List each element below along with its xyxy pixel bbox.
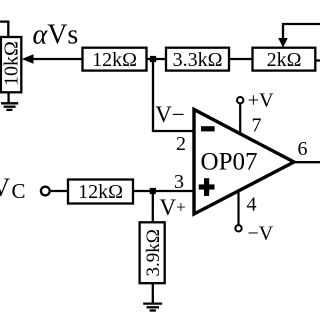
svg-text:3.9kΩ: 3.9kΩ <box>143 229 164 276</box>
svg-text:3: 3 <box>174 171 184 193</box>
svg-text:V: V <box>0 173 10 202</box>
pin 7 wire <box>239 103 241 134</box>
wire V− node down <box>152 59 154 131</box>
wire top terminal of 10k potentiometer <box>0 22 8 37</box>
svg-text:12kΩ: 12kΩ <box>78 181 123 203</box>
svg-text:6: 6 <box>298 138 308 160</box>
svg-text:OP07: OP07 <box>201 148 258 175</box>
resistor 12kΩ (top) <box>83 48 147 71</box>
wire 12kΩ to 3.3kΩ <box>147 58 167 60</box>
resistor 12kΩ (input) <box>68 180 133 204</box>
svg-text:7: 7 <box>252 115 262 137</box>
wire to pin 2 <box>152 130 195 132</box>
svg-text:4: 4 <box>247 194 257 216</box>
+V terminal <box>237 97 243 103</box>
wire terminal to 12kΩ <box>51 190 68 192</box>
svg-text:−V: −V <box>248 223 274 245</box>
wiper arrow into 10kΩ <box>22 54 34 63</box>
wire 3.3kΩ to 2kΩ <box>229 58 253 60</box>
inverting input marker − <box>201 126 215 131</box>
ground below 10kΩ <box>1 103 18 110</box>
svg-text:+V: +V <box>248 89 274 111</box>
wire output pin 6 <box>293 161 320 163</box>
op-amp U1 OP07 <box>194 110 294 215</box>
input terminal VC <box>41 187 50 196</box>
resistor 3.9kΩ (vertical) <box>140 222 165 283</box>
resistor 3.3kΩ <box>166 48 229 71</box>
resistor R 10kΩ (potentiometer body) <box>1 37 21 92</box>
svg-text:12kΩ: 12kΩ <box>92 49 137 71</box>
wire 3.9kΩ to ground <box>152 283 154 303</box>
svg-text:V−: V− <box>155 102 185 127</box>
wiper arrow into 2kΩ <box>278 38 288 48</box>
wire 12kΩ to pin 3 <box>133 190 195 192</box>
wire 2kΩ right terminal stub <box>315 59 320 61</box>
wire 10k to ground <box>7 92 9 103</box>
wire V+ node down to 3.9kΩ <box>152 191 154 223</box>
svg-text:V+: V+ <box>160 195 186 220</box>
wire wiper to 12kΩ <box>32 58 83 60</box>
svg-text:2: 2 <box>176 133 186 155</box>
junction V+ node <box>150 188 156 194</box>
non-inverting input marker + <box>199 178 215 196</box>
resistor 2kΩ (potentiometer body) <box>253 48 316 71</box>
wire feedback to 2kΩ wiper <box>283 24 320 40</box>
svg-text:C: C <box>12 179 26 203</box>
junction V− node <box>150 56 156 62</box>
−V terminal <box>235 225 241 231</box>
pin 4 wire <box>237 191 239 225</box>
ground below 3.9kΩ <box>143 304 162 311</box>
svg-text:10kΩ: 10kΩ <box>1 41 23 86</box>
svg-text:αVs: αVs <box>33 20 79 51</box>
svg-text:2kΩ: 2kΩ <box>267 49 302 71</box>
svg-text:3.3kΩ: 3.3kΩ <box>173 49 223 71</box>
